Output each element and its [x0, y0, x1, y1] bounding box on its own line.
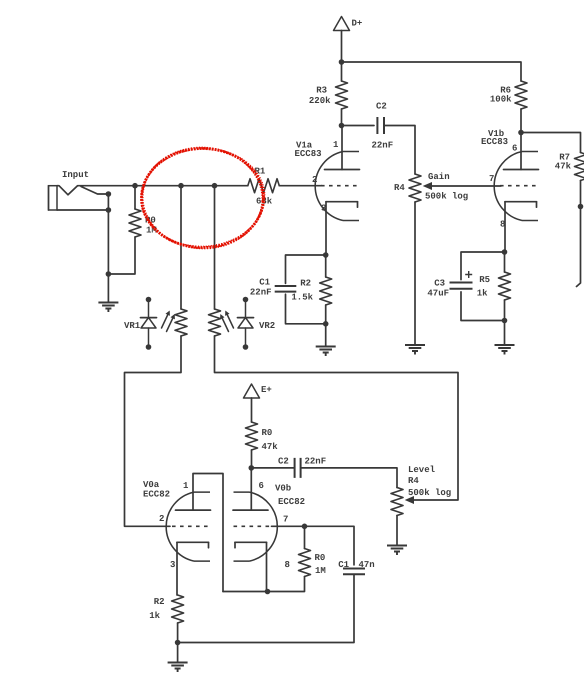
wire R7 output stub [577, 207, 581, 287]
wire anode to C2 osc [251, 467, 294, 469]
wire V1a cathode [325, 202, 327, 255]
tube V0b grid [234, 525, 272, 527]
svg-text:1k: 1k [149, 611, 160, 621]
resistor VR1 LDR [175, 309, 187, 336]
vactrol VR1 light [162, 311, 175, 332]
resistor R7 [555, 153, 584, 181]
svg-text:6: 6 [259, 481, 264, 491]
wire C2 to gain pot [384, 126, 415, 175]
svg-text:22nF: 22nF [372, 141, 394, 151]
tube V0a labels [143, 480, 189, 570]
wire C2 osc to level pot [301, 468, 397, 488]
svg-text:Input: Input [62, 170, 89, 180]
tube V1a anode [325, 126, 360, 170]
wire D+ to R3 [341, 62, 343, 81]
wire R0 1M top [304, 526, 306, 548]
tube V0b cathode [235, 542, 267, 548]
wire to input ground [107, 274, 109, 302]
wire V0b cathode down [266, 542, 268, 591]
node grid leak top [132, 183, 138, 189]
wire gain wiper to V1b grid [431, 185, 502, 187]
resistor R6 [490, 81, 527, 109]
vactrol VR1 LED [124, 297, 157, 350]
wire R2 to ground [325, 324, 327, 346]
svg-text:Level: Level [408, 465, 436, 475]
wire D+ stem [341, 31, 343, 63]
ground gain pot [405, 345, 425, 355]
svg-text:100k: 100k [490, 95, 512, 105]
potentiometer R4 gain [394, 172, 468, 202]
svg-text:47k: 47k [555, 162, 572, 172]
annotation red ellipse [139, 145, 267, 252]
svg-text:47n: 47n [359, 560, 375, 570]
capacitor C1 [250, 278, 296, 298]
svg-text:220k: 220k [309, 96, 331, 106]
wire V1b anode to R7 [521, 133, 581, 153]
node LDR2 tap [212, 183, 218, 189]
svg-text:1.5k: 1.5k [291, 293, 313, 303]
node V1a cathode junction [323, 252, 329, 258]
wire R3 to anode node [341, 109, 343, 126]
node V1a anode [339, 123, 345, 129]
node jack switch [106, 191, 112, 197]
wire jack sleeve [57, 209, 108, 211]
capacitor C2 oscillator [278, 457, 326, 478]
wire grid leak bottom [108, 237, 135, 274]
potentiometer R4 level [391, 465, 451, 516]
node R2 bottom [323, 321, 329, 327]
wire sleeve down [107, 194, 109, 274]
svg-text:47k: 47k [262, 442, 279, 452]
wire R5 leads [504, 252, 506, 321]
node R7 bottom [578, 204, 584, 210]
svg-text:R5: R5 [479, 275, 490, 285]
resistor R0 1M osc [299, 549, 326, 577]
svg-text:R4: R4 [394, 183, 405, 193]
node V0b anode [249, 465, 255, 471]
svg-text:500k log: 500k log [425, 192, 468, 202]
svg-text:22nF: 22nF [305, 457, 327, 467]
node V0b grid junction [302, 524, 308, 530]
svg-text:7: 7 [283, 515, 288, 525]
wire R7 bottom [580, 181, 582, 207]
svg-text:R2: R2 [300, 279, 311, 289]
wire V1b cathode [504, 202, 506, 252]
svg-text:R3: R3 [316, 86, 327, 96]
svg-text:VR2: VR2 [259, 321, 275, 331]
tube V1b cathode [505, 202, 537, 208]
wire input jack net [57, 186, 248, 195]
wire E+ to R0 [251, 398, 253, 422]
svg-text:VR1: VR1 [124, 321, 141, 331]
tube V1a grid [321, 185, 359, 187]
tube V0a grid [172, 525, 210, 527]
tube V1a envelope [315, 152, 359, 221]
tube V0a envelope [166, 492, 210, 561]
wire R5 to ground [504, 321, 506, 345]
tube V1b envelope [494, 152, 538, 221]
svg-text:ECC82: ECC82 [278, 497, 305, 507]
wire anode node to C2 [342, 125, 375, 127]
svg-text:3: 3 [170, 560, 175, 570]
svg-text:500k log: 500k log [408, 488, 451, 498]
resistor R0 47k [246, 422, 279, 452]
wire C1 bottom [286, 294, 326, 324]
ground input [98, 303, 118, 313]
svg-text:7: 7 [489, 174, 494, 184]
svg-text:R0: R0 [262, 428, 273, 438]
resistor R2 1k [149, 595, 183, 623]
vactrol VR2 light [220, 311, 233, 332]
wire level pot to ground [396, 516, 398, 545]
capacitor C1 47n [338, 560, 375, 574]
resistor R1 [248, 167, 279, 207]
tube V1b grid [500, 185, 538, 187]
svg-text:R4: R4 [408, 476, 419, 486]
resistor R5 [477, 272, 511, 300]
node V0b cathode junction [265, 589, 271, 595]
ground oscillator [168, 663, 188, 673]
resistor R3 [309, 81, 348, 109]
svg-text:C2: C2 [278, 457, 289, 467]
wire V0a cathode to R2 [176, 542, 178, 595]
input jack [49, 170, 109, 210]
wire C3 bottom [461, 292, 505, 321]
svg-text:2: 2 [312, 175, 317, 185]
node V1b cathode junction [502, 249, 508, 255]
resistor R2 1.5k [291, 277, 331, 305]
capacitor C2 [372, 102, 394, 151]
svg-text:V0a: V0a [143, 480, 160, 490]
wire R2 leads [325, 255, 327, 324]
wire to C3 [461, 252, 505, 280]
power rail D+ [334, 17, 363, 31]
svg-text:8: 8 [285, 560, 290, 570]
svg-text:22nF: 22nF [250, 288, 272, 298]
wire LDR1 down [180, 186, 182, 309]
svg-text:1M: 1M [315, 566, 326, 576]
node V1b anode [518, 130, 524, 136]
wire HT rail to R6 [342, 62, 522, 81]
node HT junction [339, 59, 345, 65]
svg-text:E+: E+ [261, 385, 272, 395]
svg-text:C3: C3 [434, 279, 445, 289]
tube V0b labels [259, 481, 306, 570]
svg-text:C2: C2 [376, 102, 387, 112]
tube V1b labels [481, 129, 517, 230]
node input ground junction [106, 271, 112, 277]
wire R0 to junction [251, 450, 253, 468]
svg-text:1: 1 [183, 481, 189, 491]
node jack sleeve [106, 207, 112, 213]
tube V1a labels [295, 140, 340, 214]
tube V0b anode lead [233, 468, 268, 510]
tube V1a cathode [326, 202, 358, 208]
svg-text:1k: 1k [477, 289, 488, 299]
tube V1b anode lead [504, 133, 539, 170]
power rail E+ [244, 384, 272, 398]
resistor R0 1M [129, 209, 157, 237]
wire gain pot to ground [414, 202, 416, 344]
node LDR1 tap [178, 183, 184, 189]
ground first stage [316, 347, 336, 357]
svg-text:1: 1 [333, 140, 339, 150]
wire R0 1M bottom [223, 577, 305, 592]
svg-text:6: 6 [512, 144, 517, 154]
tube V0b envelope [234, 492, 278, 561]
ground level pot [387, 546, 407, 556]
node R2 1k bottom [175, 640, 181, 646]
wire R2 1k bottom [177, 623, 179, 643]
svg-text:47uF: 47uF [427, 289, 449, 299]
wire LDR2 down [214, 186, 216, 309]
node R5 bottom [502, 318, 508, 324]
wire grid leak top [134, 186, 136, 209]
resistor VR2 LDR [209, 309, 221, 336]
svg-text:ECC83: ECC83 [295, 149, 322, 159]
svg-text:R2: R2 [154, 597, 165, 607]
wire to C1 [286, 255, 326, 283]
svg-text:C1: C1 [259, 278, 270, 288]
wire LDR1 to V0a grid [125, 336, 182, 526]
wire to osc ground [177, 643, 179, 662]
svg-text:R0: R0 [315, 553, 326, 563]
tube V0a cathode [177, 542, 209, 548]
svg-text:V0b: V0b [275, 484, 291, 494]
svg-text:2: 2 [159, 514, 164, 524]
wire R1 to V1a grid [279, 185, 322, 187]
ground second stage [495, 345, 515, 355]
wire LDR2 to level wiper [215, 336, 459, 500]
vactrol VR2 LED [238, 297, 276, 350]
svg-text:C1: C1 [338, 560, 349, 570]
wire C1 47n bottom [178, 574, 354, 642]
tube V0a anode loop to V0b cathode [176, 474, 224, 592]
svg-text:Gain: Gain [428, 172, 450, 182]
capacitor C3 [427, 271, 472, 299]
svg-text:ECC82: ECC82 [143, 490, 170, 500]
svg-text:ECC83: ECC83 [481, 137, 508, 147]
wire V0b grid out [272, 526, 355, 565]
wire R6 to V1b anode [520, 109, 522, 133]
svg-text:D+: D+ [352, 19, 363, 29]
